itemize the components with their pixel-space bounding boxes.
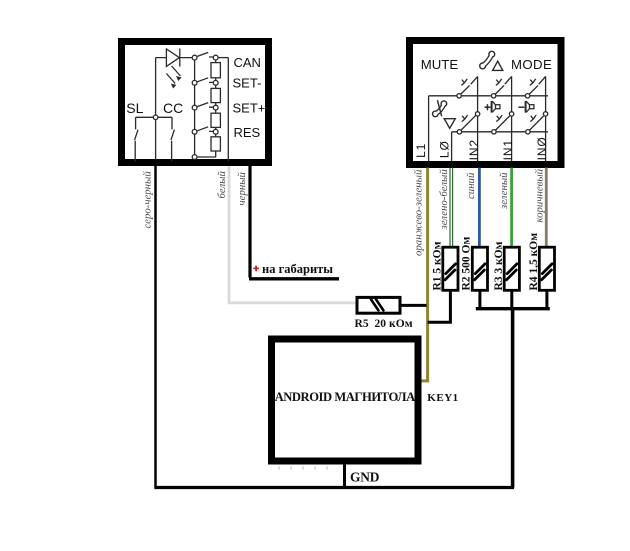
svg-text:на габариты: на габариты (262, 262, 333, 276)
svg-text:MODE: MODE (511, 57, 552, 72)
svg-text:белый: белый (216, 171, 228, 199)
svg-text:R1 5 кОм: R1 5 кОм (432, 241, 444, 290)
svg-text:KEY1: KEY1 (427, 392, 458, 404)
svg-text:зеленый: зеленый (498, 172, 510, 210)
svg-text:черный: черный (236, 171, 248, 205)
svg-text:R4 1,5 кОм: R4 1,5 кОм (528, 233, 540, 291)
svg-text:серо-черный: серо-черный (141, 171, 153, 229)
svg-text:GND: GND (350, 470, 380, 485)
svg-text:MUTE: MUTE (421, 57, 459, 72)
svg-text:L1: L1 (414, 143, 428, 158)
svg-text:коричневый: коричневый (533, 168, 545, 222)
svg-text:INØ: INØ (535, 136, 549, 160)
svg-text:оранжево-зеленый: оранжево-зеленый (412, 169, 424, 256)
svg-text:IN2: IN2 (467, 139, 481, 160)
svg-text:CAN: CAN (234, 55, 261, 70)
svg-text:R5 20 кОм: R5 20 кОм (355, 318, 413, 330)
svg-text:CC: CC (163, 100, 183, 116)
svg-text:SET+: SET+ (233, 100, 266, 115)
svg-text:LØ: LØ (438, 140, 452, 158)
svg-text:SL: SL (126, 100, 143, 116)
svg-text:SET-: SET- (233, 76, 262, 91)
svg-text:зелено-белый: зелено-белый (438, 169, 450, 231)
svg-text:IN1: IN1 (501, 139, 515, 160)
svg-text:R3 3 кОм: R3 3 кОм (493, 241, 505, 290)
svg-text:синий: синий (465, 172, 477, 199)
svg-text:ANDROID МАГНИТОЛА: ANDROID МАГНИТОЛА (275, 390, 415, 404)
svg-text:R2 500 Ом: R2 500 Ом (461, 237, 473, 291)
svg-text:RES: RES (234, 125, 261, 140)
